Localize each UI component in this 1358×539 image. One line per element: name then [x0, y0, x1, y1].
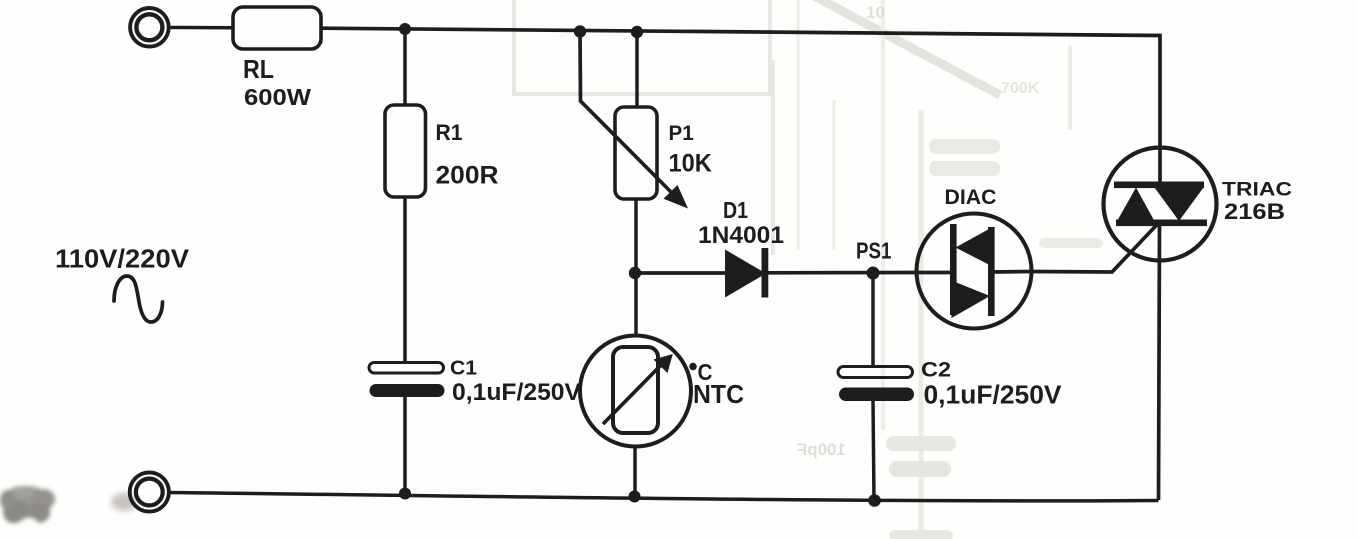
terminal bottom-left [130, 472, 169, 511]
capacitor C2 [838, 367, 913, 378]
svg-text:D1: D1 [723, 197, 748, 223]
wire C2 to bottom [873, 401, 874, 501]
wire P1 top lead [635, 32, 639, 108]
wire DIAC to TRIAC gate [1031, 223, 1159, 273]
svg-text:10: 10 [866, 3, 885, 22]
triac [1104, 148, 1217, 501]
wire node to D1 [635, 271, 727, 275]
diac PS1 [917, 214, 1032, 329]
node R1 top [399, 23, 411, 35]
svg-text:PS1: PS1 [856, 238, 892, 264]
wire D1 to DIAC [768, 271, 917, 275]
svg-text:700K: 700K [1001, 80, 1040, 97]
node NTC bottom [629, 491, 641, 503]
diode D1 [725, 250, 766, 298]
wire P1 wiper [580, 32, 673, 195]
wire P1 to NTC [634, 199, 638, 337]
svg-text:1N4001: 1N4001 [698, 222, 784, 249]
svg-text:216B: 216B [1224, 199, 1285, 224]
node C2 bottom [868, 494, 881, 507]
svg-text:C2: C2 [921, 358, 951, 382]
terminal top-left [130, 8, 169, 47]
svg-text:R1: R1 [436, 120, 463, 145]
svg-text:NTC: NTC [693, 379, 744, 409]
svg-text:C1: C1 [450, 358, 477, 380]
svg-text:TRIAC: TRIAC [1222, 179, 1292, 201]
label °C [689, 363, 697, 371]
thermistor NTC [580, 336, 691, 447]
wire C2 top [871, 273, 875, 368]
node P1 top [631, 26, 643, 38]
svg-text:600W: 600W [244, 84, 311, 110]
wire terminal to RL [170, 26, 234, 30]
arrowhead P1 [664, 185, 689, 209]
node middle [629, 267, 641, 279]
svg-text:0,1uF/250V: 0,1uF/250V [452, 379, 582, 406]
capacitor C1 [369, 363, 444, 374]
svg-text:110V/220V: 110V/220V [55, 246, 189, 274]
node PS1 [867, 267, 880, 280]
svg-text:RL: RL [243, 54, 274, 84]
svg-text:10K: 10K [669, 150, 712, 178]
wire R1 top [403, 29, 407, 106]
potentiometer P1 [615, 107, 657, 199]
node C1 bottom [399, 488, 411, 500]
node P1 wiper top [574, 25, 586, 37]
wire C1 to bottom [403, 397, 407, 495]
bottom wire [170, 493, 1159, 501]
svg-text:P1: P1 [669, 122, 695, 145]
svg-text:DIAC: DIAC [945, 186, 997, 209]
wire R1 to C1 [403, 197, 407, 364]
wire NTC to bottom [633, 446, 637, 497]
svg-text:0,1uF/250V: 0,1uF/250V [924, 381, 1062, 409]
AC source symbol [114, 276, 163, 322]
resistor R1 [385, 105, 426, 197]
svg-text:200R: 200R [436, 162, 499, 190]
svg-text:100pF: 100pF [797, 440, 846, 459]
resistor RL [233, 7, 321, 49]
wire top (RL to right corner, down to triac) [321, 28, 1160, 148]
